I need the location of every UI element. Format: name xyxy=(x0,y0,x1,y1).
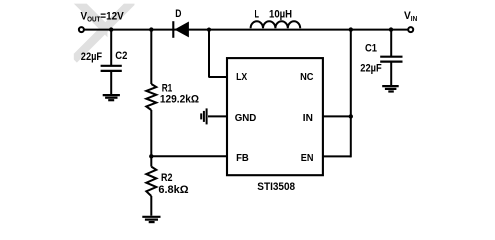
diode D cathode bar xyxy=(172,21,174,38)
ground (R2) xyxy=(142,217,160,222)
node junction FB/R1/R2 xyxy=(149,154,153,158)
svg-text:GND: GND xyxy=(235,113,257,124)
svg-text:EN: EN xyxy=(301,153,314,164)
watermark X cross-out xyxy=(74,4,135,63)
svg-text:R2: R2 xyxy=(161,172,172,184)
regulator IC U1 STI3508 box xyxy=(227,58,323,175)
capacitor C2 xyxy=(101,66,122,71)
svg-text:VOUT=12V: VOUT=12V xyxy=(81,10,125,23)
wire LX pin xyxy=(208,76,227,78)
node junction R1/top rail xyxy=(149,27,153,31)
wire R2 upper lead xyxy=(150,156,152,166)
wire R2 lower lead xyxy=(150,196,152,216)
node junction IN/EN vertical xyxy=(349,114,353,118)
svg-text:R1: R1 xyxy=(162,82,173,94)
node junction C1/top rail xyxy=(389,27,393,31)
terminal VIN xyxy=(408,27,413,32)
node junction IN-EN/top rail xyxy=(349,27,353,31)
capacitor C1 xyxy=(380,57,402,62)
node junction LX/top rail xyxy=(207,28,211,32)
svg-text:FB: FB xyxy=(236,153,249,164)
wire LX net vertical xyxy=(208,30,210,77)
svg-text:STI3508: STI3508 xyxy=(257,181,295,193)
terminal VOUT xyxy=(79,27,84,32)
svg-text:L: L xyxy=(255,9,260,21)
wire EN pin xyxy=(323,155,351,157)
wire GND pin xyxy=(208,115,227,117)
svg-text:6.8kΩ: 6.8kΩ xyxy=(158,184,188,196)
wire R1 to FB junction xyxy=(150,110,152,156)
ground (GND pin, sideways) xyxy=(201,108,206,124)
svg-text:22µF: 22µF xyxy=(81,51,102,63)
node junction C2/top rail xyxy=(109,27,113,31)
inductor L xyxy=(251,21,301,28)
wire C2 upper lead xyxy=(110,30,112,66)
svg-text:C1: C1 xyxy=(365,42,378,54)
wire C1 lower lead xyxy=(390,62,392,85)
wire C2 lower lead xyxy=(110,71,112,94)
svg-text:10µH: 10µH xyxy=(269,9,292,21)
resistor R1 xyxy=(146,84,156,110)
svg-text:129.2kΩ: 129.2kΩ xyxy=(160,94,199,106)
diode D body xyxy=(174,22,189,38)
svg-text:C2: C2 xyxy=(115,50,127,62)
svg-text:LX: LX xyxy=(236,72,247,83)
wire C1 upper lead xyxy=(390,30,392,57)
svg-text:NC: NC xyxy=(300,72,314,83)
svg-text:VIN: VIN xyxy=(404,10,417,23)
resistor R2 xyxy=(146,167,156,196)
svg-text:IN: IN xyxy=(303,113,313,124)
wire IN pin xyxy=(323,115,351,117)
svg-text:22µF: 22µF xyxy=(360,63,381,75)
wire FB pin xyxy=(151,155,227,157)
wire IN/EN vertical to top rail xyxy=(350,30,352,158)
wire top rail xyxy=(85,29,408,31)
wire R1 upper lead xyxy=(150,30,152,84)
ground (C2) xyxy=(103,95,120,100)
svg-text:D: D xyxy=(175,8,181,20)
ground (C1) xyxy=(382,86,399,91)
